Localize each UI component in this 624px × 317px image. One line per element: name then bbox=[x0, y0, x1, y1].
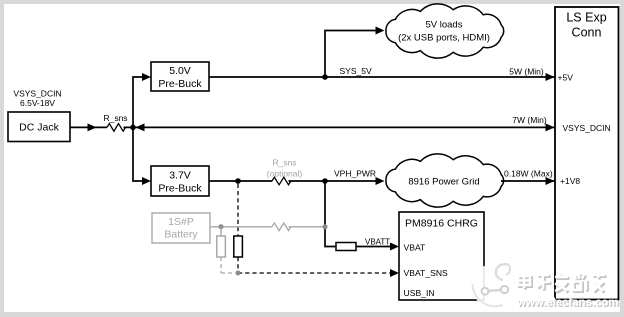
svg-text:R_sns: R_sns bbox=[103, 113, 127, 123]
svg-text:PM8916 CHRG: PM8916 CHRG bbox=[405, 218, 478, 230]
svg-text:www.elecfans.com: www.elecfans.com bbox=[516, 296, 619, 308]
svg-text:Battery: Battery bbox=[164, 228, 198, 240]
wire: battery to VPH (gray) bbox=[210, 226, 325, 228]
wire: branch up to 5V loads cloud bbox=[325, 31, 376, 78]
dashed wire: resistor to sense junction bbox=[237, 257, 239, 273]
3.7V Pre-Buck box bbox=[151, 166, 209, 196]
svg-text:VBAT_SNS: VBAT_SNS bbox=[404, 268, 449, 278]
arrow left into junction bbox=[136, 123, 145, 131]
arrow into 5V loads cloud bbox=[376, 27, 385, 35]
arrow into 8916 Power Grid cloud bbox=[376, 177, 385, 185]
svg-text:0.18W (Max): 0.18W (Max) bbox=[504, 169, 553, 179]
svg-text:Pre-Buck: Pre-Buck bbox=[158, 182, 202, 194]
wire: DC Jack to center junction bbox=[70, 126, 133, 128]
cloud: 8916 Power Grid bbox=[386, 154, 504, 207]
5.0V Pre-Buck box bbox=[151, 62, 209, 91]
arrow into LS Exp Conn +1V8 bbox=[546, 177, 555, 185]
svg-text:8916 Power Grid: 8916 Power Grid bbox=[408, 177, 479, 188]
svg-text:1S#P: 1S#P bbox=[168, 216, 194, 228]
svg-text:Conn: Conn bbox=[572, 25, 602, 39]
resistor (VBATT sense, rect) bbox=[336, 243, 356, 251]
wire: VPH_PWR bus to 8916 Power Grid bbox=[209, 180, 376, 182]
svg-text:5V loads: 5V loads bbox=[426, 20, 463, 31]
node: VPH line tap (gray) bbox=[323, 224, 328, 229]
wire: junction up to 5.0V Pre-Buck input bbox=[133, 77, 143, 127]
gray vertical sense resistor bbox=[220, 227, 222, 236]
resistor (vertical, gray) bbox=[217, 236, 226, 257]
svg-text:LS Exp: LS Exp bbox=[566, 10, 606, 24]
resistor R_sns (optional) bbox=[272, 177, 291, 185]
watermark chinese text 电子发烧友 (embossed strokes) bbox=[518, 272, 607, 293]
node: battery tap (gray) bbox=[219, 224, 224, 229]
svg-text:5.0V: 5.0V bbox=[169, 65, 191, 77]
svg-text:5W (Min): 5W (Min) bbox=[509, 67, 544, 77]
svg-text:VBAT: VBAT bbox=[404, 242, 427, 252]
arrow on DC jack wire bbox=[88, 123, 97, 131]
cloud: 5V loads bbox=[386, 4, 504, 58]
wire: cloud to +1V8 bbox=[501, 180, 555, 182]
svg-text:VPH_PWR: VPH_PWR bbox=[334, 168, 376, 178]
svg-text:R_sns: R_sns bbox=[272, 158, 296, 168]
wire: junction down to 3.7V Pre-Buck input bbox=[133, 127, 143, 181]
wire: VPH junction down to VBATT bbox=[325, 181, 336, 247]
watermark logo (elecfans, embossed white) bbox=[472, 264, 517, 309]
svg-text:VBATT: VBATT bbox=[365, 237, 390, 246]
svg-text:+1V8: +1V8 bbox=[560, 176, 580, 186]
svg-text:Pre-Buck: Pre-Buck bbox=[158, 78, 202, 90]
svg-text:DC Jack: DC Jack bbox=[19, 122, 59, 134]
svg-text:7W (Min): 7W (Min) bbox=[512, 115, 547, 125]
svg-text:3.7V: 3.7V bbox=[169, 169, 191, 181]
arrow right into LS Exp Conn bbox=[546, 123, 555, 131]
svg-text:6.5V-18V: 6.5V-18V bbox=[20, 98, 55, 108]
svg-text:SYS_5V: SYS_5V bbox=[340, 66, 372, 76]
LS Exp Conn box bbox=[555, 7, 619, 300]
svg-text:VSYS_DCIN: VSYS_DCIN bbox=[563, 123, 611, 133]
node on SYS_5V bus bbox=[322, 74, 328, 80]
arrow into PM8916 VBAT bbox=[390, 243, 399, 251]
svg-text:+5V: +5V bbox=[558, 73, 574, 83]
node: center junction bbox=[130, 125, 136, 131]
svg-text:USB_IN: USB_IN bbox=[404, 288, 435, 298]
resistor (gray sense) bbox=[272, 223, 291, 231]
PM8916 CHRG box bbox=[399, 212, 484, 300]
node: dashed branch junction bbox=[235, 178, 241, 184]
arrow into 5.0V Pre-Buck bbox=[142, 73, 151, 81]
dashed gray wire to sense junction bbox=[221, 257, 235, 273]
svg-text:(2x USB ports, HDMI): (2x USB ports, HDMI) bbox=[398, 33, 490, 44]
wire: center bus (VSYS_DCIN) to LS Exp Conn bbox=[133, 126, 555, 128]
wire: resistor to VBAT pin bbox=[356, 246, 390, 248]
node: sense junction (gray) bbox=[236, 271, 241, 276]
arrow into 3.7V Pre-Buck bbox=[142, 177, 151, 185]
svg-text:(optional): (optional) bbox=[267, 168, 303, 178]
DC Jack box bbox=[8, 112, 70, 142]
battery 1S#P (gray) bbox=[152, 213, 210, 243]
wire: 5.0V output bus SYS_5V bbox=[209, 76, 555, 78]
arrow into LS Exp Conn +5V bbox=[546, 73, 555, 81]
dashed wire: junction down through sense resistor bbox=[237, 184, 239, 236]
node: VPH junction bbox=[322, 178, 328, 184]
arrow into PM8916 VBAT_SNS bbox=[390, 269, 399, 277]
resistor R_sns (main input sense) bbox=[107, 124, 126, 132]
dashed wire: VBAT_SNS bbox=[238, 272, 390, 274]
resistor (vertical, black) bbox=[234, 236, 243, 257]
